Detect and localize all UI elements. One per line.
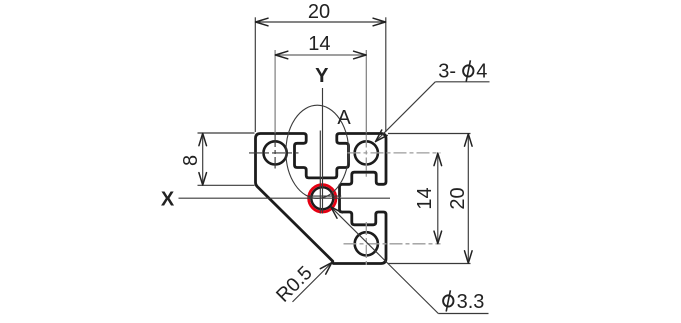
svg-text:20: 20 bbox=[447, 187, 469, 209]
svg-text:Y: Y bbox=[315, 65, 329, 87]
svg-text:3-: 3- bbox=[438, 61, 456, 83]
svg-text:14: 14 bbox=[414, 187, 436, 209]
svg-text:8: 8 bbox=[180, 155, 202, 166]
svg-text:X: X bbox=[161, 189, 175, 211]
svg-text:3.3: 3.3 bbox=[457, 291, 485, 313]
svg-text:4: 4 bbox=[476, 61, 487, 83]
svg-text:14: 14 bbox=[308, 33, 330, 55]
svg-text:A: A bbox=[337, 107, 351, 129]
svg-text:20: 20 bbox=[308, 1, 330, 23]
